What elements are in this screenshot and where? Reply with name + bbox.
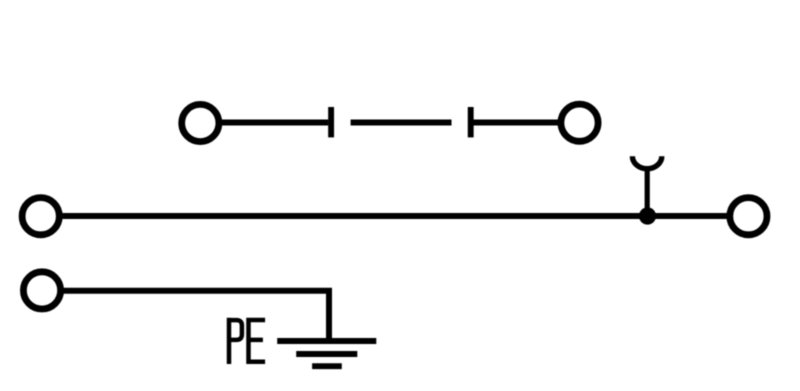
terminal circle X5 (bottom left) xyxy=(23,272,60,309)
ground bar 3 xyxy=(312,363,342,369)
terminal circle X2 (top right) xyxy=(561,104,598,141)
wire top-left xyxy=(221,120,328,126)
terminal circle X1 (top left) xyxy=(182,104,219,141)
terminal circle X3 (middle left) xyxy=(22,198,59,235)
label PE xyxy=(227,318,265,364)
ground bar 2 xyxy=(296,351,357,357)
ground bar 1 xyxy=(277,338,376,344)
wire top-right xyxy=(474,120,561,126)
wire middle xyxy=(62,213,728,219)
terminal circle X4 (middle right) xyxy=(730,198,767,235)
junction dot xyxy=(639,207,656,224)
wire bridge segment xyxy=(351,120,452,126)
test socket fork xyxy=(632,156,661,168)
disconnect contact tick 1 xyxy=(328,107,334,137)
wire bottom with corner xyxy=(63,291,329,341)
wire test-tap stem xyxy=(645,169,650,217)
disconnect contact tick 2 xyxy=(468,107,474,137)
